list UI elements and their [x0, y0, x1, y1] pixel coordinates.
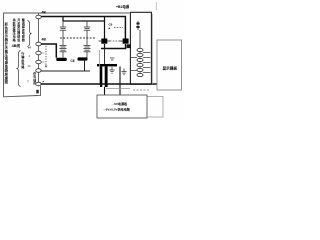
svg-text:+B1电源: +B1电源 [116, 4, 130, 9]
thick joining wire [105, 44, 126, 49]
dashes below dark box [133, 89, 149, 91]
filter capacitor block (large, black) [104, 49, 106, 65]
small symbol in box [136, 21, 139, 30]
svg-text:4B: 4B [42, 11, 47, 15]
+6V supply circuit box [97, 95, 147, 118]
dashed link between components [110, 40, 119, 42]
gray tick top right [156, 2, 158, 10]
gray line [99, 50, 101, 85]
ground symbol mid [109, 67, 114, 73]
wire: +B1 supply rail (thick, top) [41, 17, 125, 39]
svg-text:→6V±0.5V供电电路: →6V±0.5V供电电路 [103, 107, 131, 112]
connector plug bars (C6 node) [56, 58, 67, 61]
dashed pointer line [45, 46, 47, 66]
junction mark bottom-left [36, 90, 38, 94]
wire: parallel lower rail [63, 17, 105, 22]
bottom-right empty box [142, 97, 163, 118]
stubs [41, 52, 44, 54]
capacitor C6 (electrolytic) [60, 38, 67, 58]
rectifier components D1 D2 (black) [101, 39, 107, 44]
svg-text:{!: {! [28, 79, 30, 83]
capacitor column 1 [60, 21, 66, 38]
connector pin stack XP1 [139, 48, 141, 77]
wire jog bottom-left [38, 86, 41, 96]
svg-text:显示器板: 显示器板 [163, 66, 178, 71]
display board box [157, 40, 182, 90]
outer board border [4, 13, 130, 97]
dashed bus row [60, 37, 95, 39]
small div symbol [110, 58, 114, 60]
svg-text:4B线: 4B线 [12, 43, 21, 48]
capacitor C7 (electrolytic) [84, 38, 91, 58]
wire: terminal strip column [38, 13, 40, 86]
svg-text:4B: 4B [42, 38, 47, 42]
wire: ground return bus (thick, bottom) [41, 83, 158, 85]
svg-text:彩色显示器开关稳压电源电路原理图: 彩色显示器开关稳压电源电路原理图 [4, 22, 9, 85]
power unit box U801 [130, 12, 151, 84]
svg-text:C6: C6 [71, 59, 75, 63]
wire from bar2 down and left to node [41, 61, 85, 71]
gray offset line [106, 88, 130, 90]
svg-text:供电插座: 供电插座 [32, 71, 36, 86]
black blob near pin top [126, 44, 130, 48]
pin wires [131, 53, 150, 73]
ground symbol right [121, 69, 126, 75]
brace right of columns [28, 21, 32, 47]
tall brace [17, 51, 21, 87]
wire: 4B line from terminal [41, 44, 56, 58]
terminals (nodes 4B...) [36, 15, 41, 86]
svg-text:→6V电源板: →6V电源板 [111, 101, 128, 106]
capacitor column 2 [84, 21, 90, 38]
